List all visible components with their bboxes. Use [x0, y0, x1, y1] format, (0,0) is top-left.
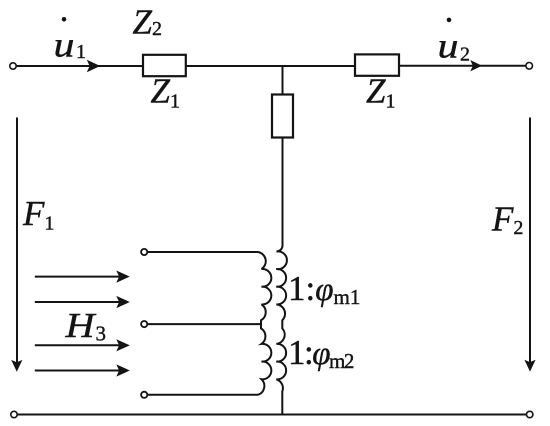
left side line F1 — [16, 118, 18, 364]
H3 field arrow 2 shaft — [35, 301, 119, 303]
wire T-junction stub — [282, 66, 284, 95]
wire between Z boxes — [186, 65, 355, 67]
terminal top-right — [526, 63, 533, 70]
arrowhead F1 down — [11, 360, 22, 372]
terminal bottom-right — [527, 411, 533, 417]
wire winding bottom lead — [147, 394, 258, 396]
H3 field arrow 4 shaft — [35, 370, 119, 372]
wire shunt branch down to winding — [277, 138, 283, 252]
primary winding (left coil, 4+4 humps with tap stub) — [258, 252, 271, 395]
terminal winding middle — [141, 321, 147, 327]
arrowhead u2 current — [470, 60, 482, 71]
arrowhead H arrow 1 — [116, 271, 130, 283]
arrowhead F2 down — [524, 360, 535, 372]
terminal bottom-left — [11, 411, 17, 417]
terminal top-left — [10, 63, 16, 69]
wire top-left segment — [16, 65, 143, 67]
resistor Z2 (vertical shunt box) — [272, 95, 293, 138]
arrowhead H arrow 2 — [116, 296, 130, 308]
arrowhead H arrow 4 — [116, 364, 130, 376]
bottom wire — [17, 414, 526, 416]
resistor Z1 (right series box) — [355, 54, 399, 75]
secondary winding (right coil, 4+4 humps with stub) — [276, 251, 287, 414]
H3 field arrow 1 shaft — [35, 276, 119, 278]
wire top-right segment — [399, 65, 526, 67]
dot over u1 — [62, 17, 67, 22]
right side line F2 — [529, 118, 531, 364]
dot over u2 — [447, 18, 452, 23]
resistor Z1 (left series box) — [143, 55, 186, 76]
H3 field arrow 3 shaft — [35, 344, 119, 346]
arrowhead u1 current — [87, 60, 101, 72]
terminal winding bottom — [141, 392, 147, 398]
wire winding top lead — [147, 251, 258, 253]
arrowhead H arrow 3 — [116, 339, 130, 351]
wire winding middle lead — [147, 323, 261, 325]
terminal winding top — [141, 249, 147, 255]
